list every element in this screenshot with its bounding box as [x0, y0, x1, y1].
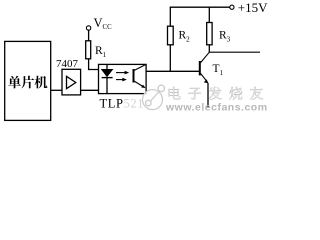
optocoupler phototransistor base bar	[133, 69, 135, 83]
buffer U1 triangle	[67, 76, 76, 88]
wire optocoupler to transistor base	[146, 70, 200, 72]
wire R2 bottom lead	[169, 45, 171, 72]
optocoupler light arrow upper	[116, 71, 129, 75]
wire R2 top lead to rail	[169, 7, 171, 26]
+15V power rail	[170, 6, 230, 8]
transistor T1 collector lead	[201, 52, 210, 62]
svg-text:7407: 7407	[56, 58, 79, 70]
wire R3 top lead	[208, 7, 210, 22]
optocoupler LED anode lead	[106, 64, 108, 69]
optocoupler light arrow lower	[116, 78, 127, 82]
optocoupler phototransistor collector	[134, 64, 146, 70]
microcontroller box U0 单片机	[5, 41, 51, 120]
transistor T1 emitter lead with arrow	[201, 74, 209, 84]
wire collector output line	[209, 51, 260, 53]
optocoupler phototransistor emitter with arrow	[134, 81, 145, 88]
optocoupler U2 package box	[99, 64, 147, 93]
resistor R2 body	[168, 26, 174, 45]
wire R1 to optocoupler anode	[89, 59, 99, 70]
optocoupler LED triangle	[102, 69, 113, 76]
resistor R1 body	[86, 41, 91, 59]
buffer U1 box	[62, 69, 81, 95]
svg-text:www.elecfans.com: www.elecfans.com	[165, 102, 268, 114]
+15V terminal circle	[230, 5, 234, 9]
transistor T1 base bar	[199, 61, 201, 75]
wire R3 bottom lead to collector node	[208, 45, 210, 52]
svg-text:+15V: +15V	[238, 0, 268, 15]
resistor R3 body	[207, 23, 212, 45]
wire Vcc to R1	[88, 30, 90, 41]
wire buffer output to optocoupler	[81, 89, 99, 91]
watermark text 电子发烧友	[169, 87, 263, 100]
svg-text:TLP521: TLP521	[100, 97, 145, 111]
watermark logo circle large	[143, 85, 165, 109]
Vcc terminal circle	[86, 26, 90, 30]
optocoupler LED cathode lead	[106, 78, 108, 94]
optocoupler LED cathode bar	[102, 77, 113, 79]
wire microcontroller to buffer	[51, 89, 62, 91]
wire T1 emitter down	[207, 83, 209, 108]
